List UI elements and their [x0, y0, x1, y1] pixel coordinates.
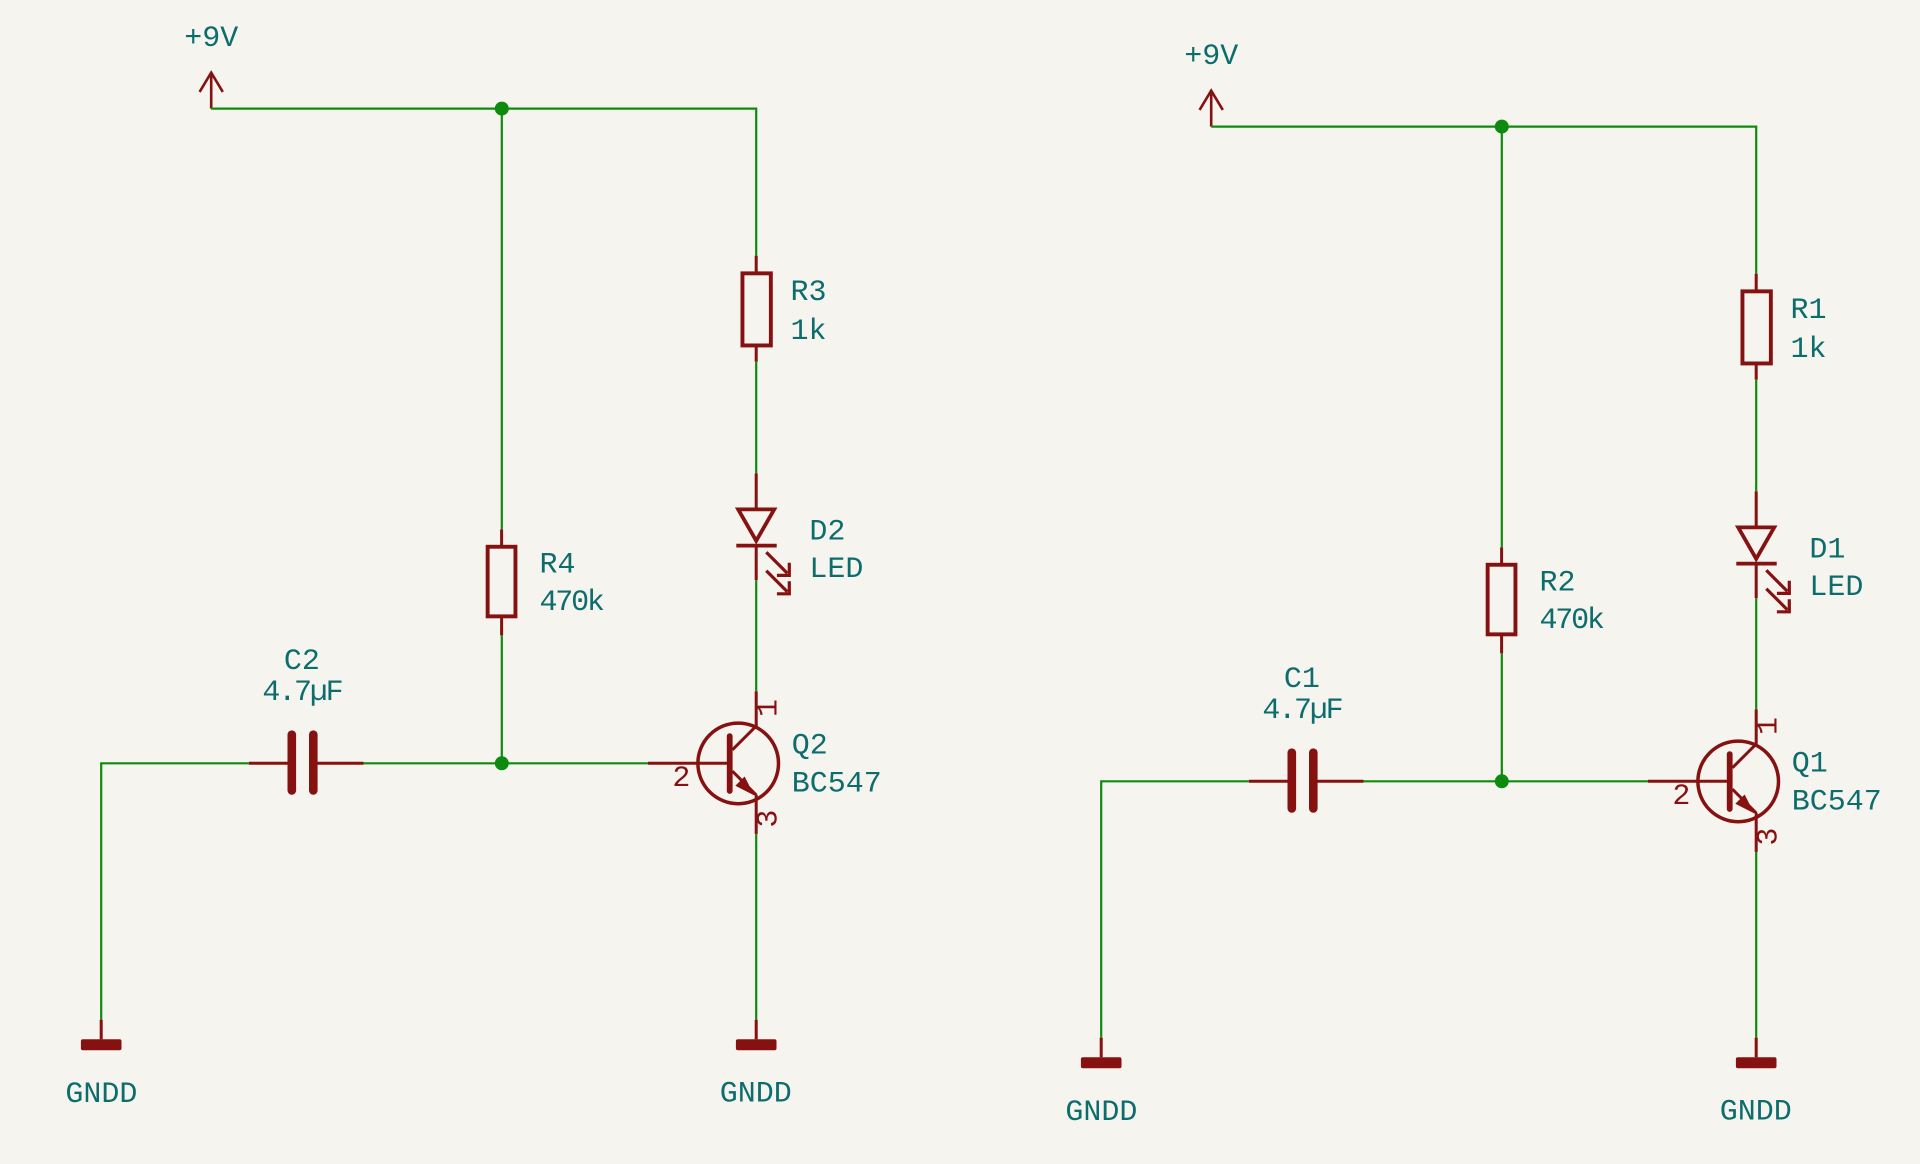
svg-text:+9V: +9V [1184, 40, 1238, 74]
capacitor C1 4.7µF [1249, 663, 1364, 813]
svg-text:LED: LED [1809, 571, 1863, 605]
ground GNDD (input side) [65, 1020, 137, 1112]
junction on +9V rail [495, 102, 509, 116]
resistor R2 470k [1488, 547, 1604, 653]
junction on base net [1495, 774, 1509, 788]
svg-text:+9V: +9V [184, 22, 238, 56]
capacitor C2 4.7µF [249, 645, 364, 795]
resistor R1 1k [1742, 274, 1826, 380]
svg-text:R1: R1 [1791, 294, 1827, 328]
ground GNDD (emitter side) [1720, 1038, 1792, 1130]
wire bias resistor to base net [501, 635, 503, 763]
wire Q1 emitter to ground [1755, 852, 1757, 1038]
svg-text:C2: C2 [284, 645, 320, 679]
svg-text:470k: 470k [1540, 604, 1604, 638]
wire D1 to Q1 collector [1755, 598, 1757, 709]
svg-text:GNDD: GNDD [720, 1077, 792, 1111]
svg-text:3: 3 [1752, 828, 1786, 846]
svg-text:Q1: Q1 [1792, 747, 1828, 781]
wire R1 to D1 [1755, 380, 1757, 492]
wire +9V rail to collector branch [211, 109, 756, 256]
wire rail down to bias resistor [501, 110, 503, 530]
wire capacitor to transistor base [364, 762, 648, 764]
power symbol +9V [1184, 40, 1238, 127]
svg-text:470k: 470k [540, 586, 604, 620]
svg-text:4.7µF: 4.7µF [1262, 694, 1341, 728]
svg-text:3: 3 [752, 810, 786, 828]
power symbol +9V [184, 22, 238, 109]
svg-text:GNDD: GNDD [1720, 1095, 1792, 1129]
svg-text:R3: R3 [791, 276, 827, 310]
svg-text:GNDD: GNDD [65, 1078, 137, 1112]
svg-text:1: 1 [752, 699, 786, 717]
resistor R4 470k [488, 529, 604, 635]
svg-text:D2: D2 [809, 516, 845, 550]
LED D2 [736, 473, 863, 593]
wire capacitor to transistor base [1364, 780, 1648, 782]
svg-text:BC547: BC547 [792, 768, 882, 802]
wire D2 to Q2 collector [755, 580, 757, 691]
wire +9V rail to collector branch [1211, 127, 1756, 274]
junction on base net [495, 756, 509, 770]
ground GNDD (input side) [1065, 1038, 1137, 1130]
ground GNDD (emitter side) [720, 1020, 792, 1112]
svg-text:4.7µF: 4.7µF [262, 676, 341, 710]
svg-text:2: 2 [1672, 780, 1690, 814]
svg-text:LED: LED [809, 553, 863, 587]
transistor Q1 BC547 [1648, 709, 1882, 852]
svg-text:1k: 1k [1791, 333, 1827, 367]
wire bias resistor to base net [1501, 653, 1503, 781]
wire input: horizontal and down to ground [1101, 781, 1249, 1037]
wire R3 to D2 [755, 362, 757, 474]
LED D1 [1736, 491, 1863, 611]
wire Q2 emitter to ground [755, 834, 757, 1020]
svg-text:R2: R2 [1540, 566, 1576, 600]
svg-text:1: 1 [1752, 717, 1786, 735]
junction on +9V rail [1495, 120, 1509, 134]
svg-text:2: 2 [672, 762, 690, 796]
svg-text:D1: D1 [1809, 534, 1845, 568]
wire rail down to bias resistor [1501, 128, 1503, 548]
transistor Q2 BC547 [648, 691, 882, 834]
svg-text:1k: 1k [791, 315, 827, 349]
svg-text:GNDD: GNDD [1065, 1096, 1137, 1130]
svg-text:Q2: Q2 [792, 729, 828, 763]
svg-text:BC547: BC547 [1792, 786, 1882, 820]
wire input: horizontal and down to ground [101, 763, 249, 1019]
svg-text:C1: C1 [1284, 663, 1320, 697]
resistor R3 1k [742, 256, 826, 362]
svg-text:R4: R4 [540, 548, 576, 582]
